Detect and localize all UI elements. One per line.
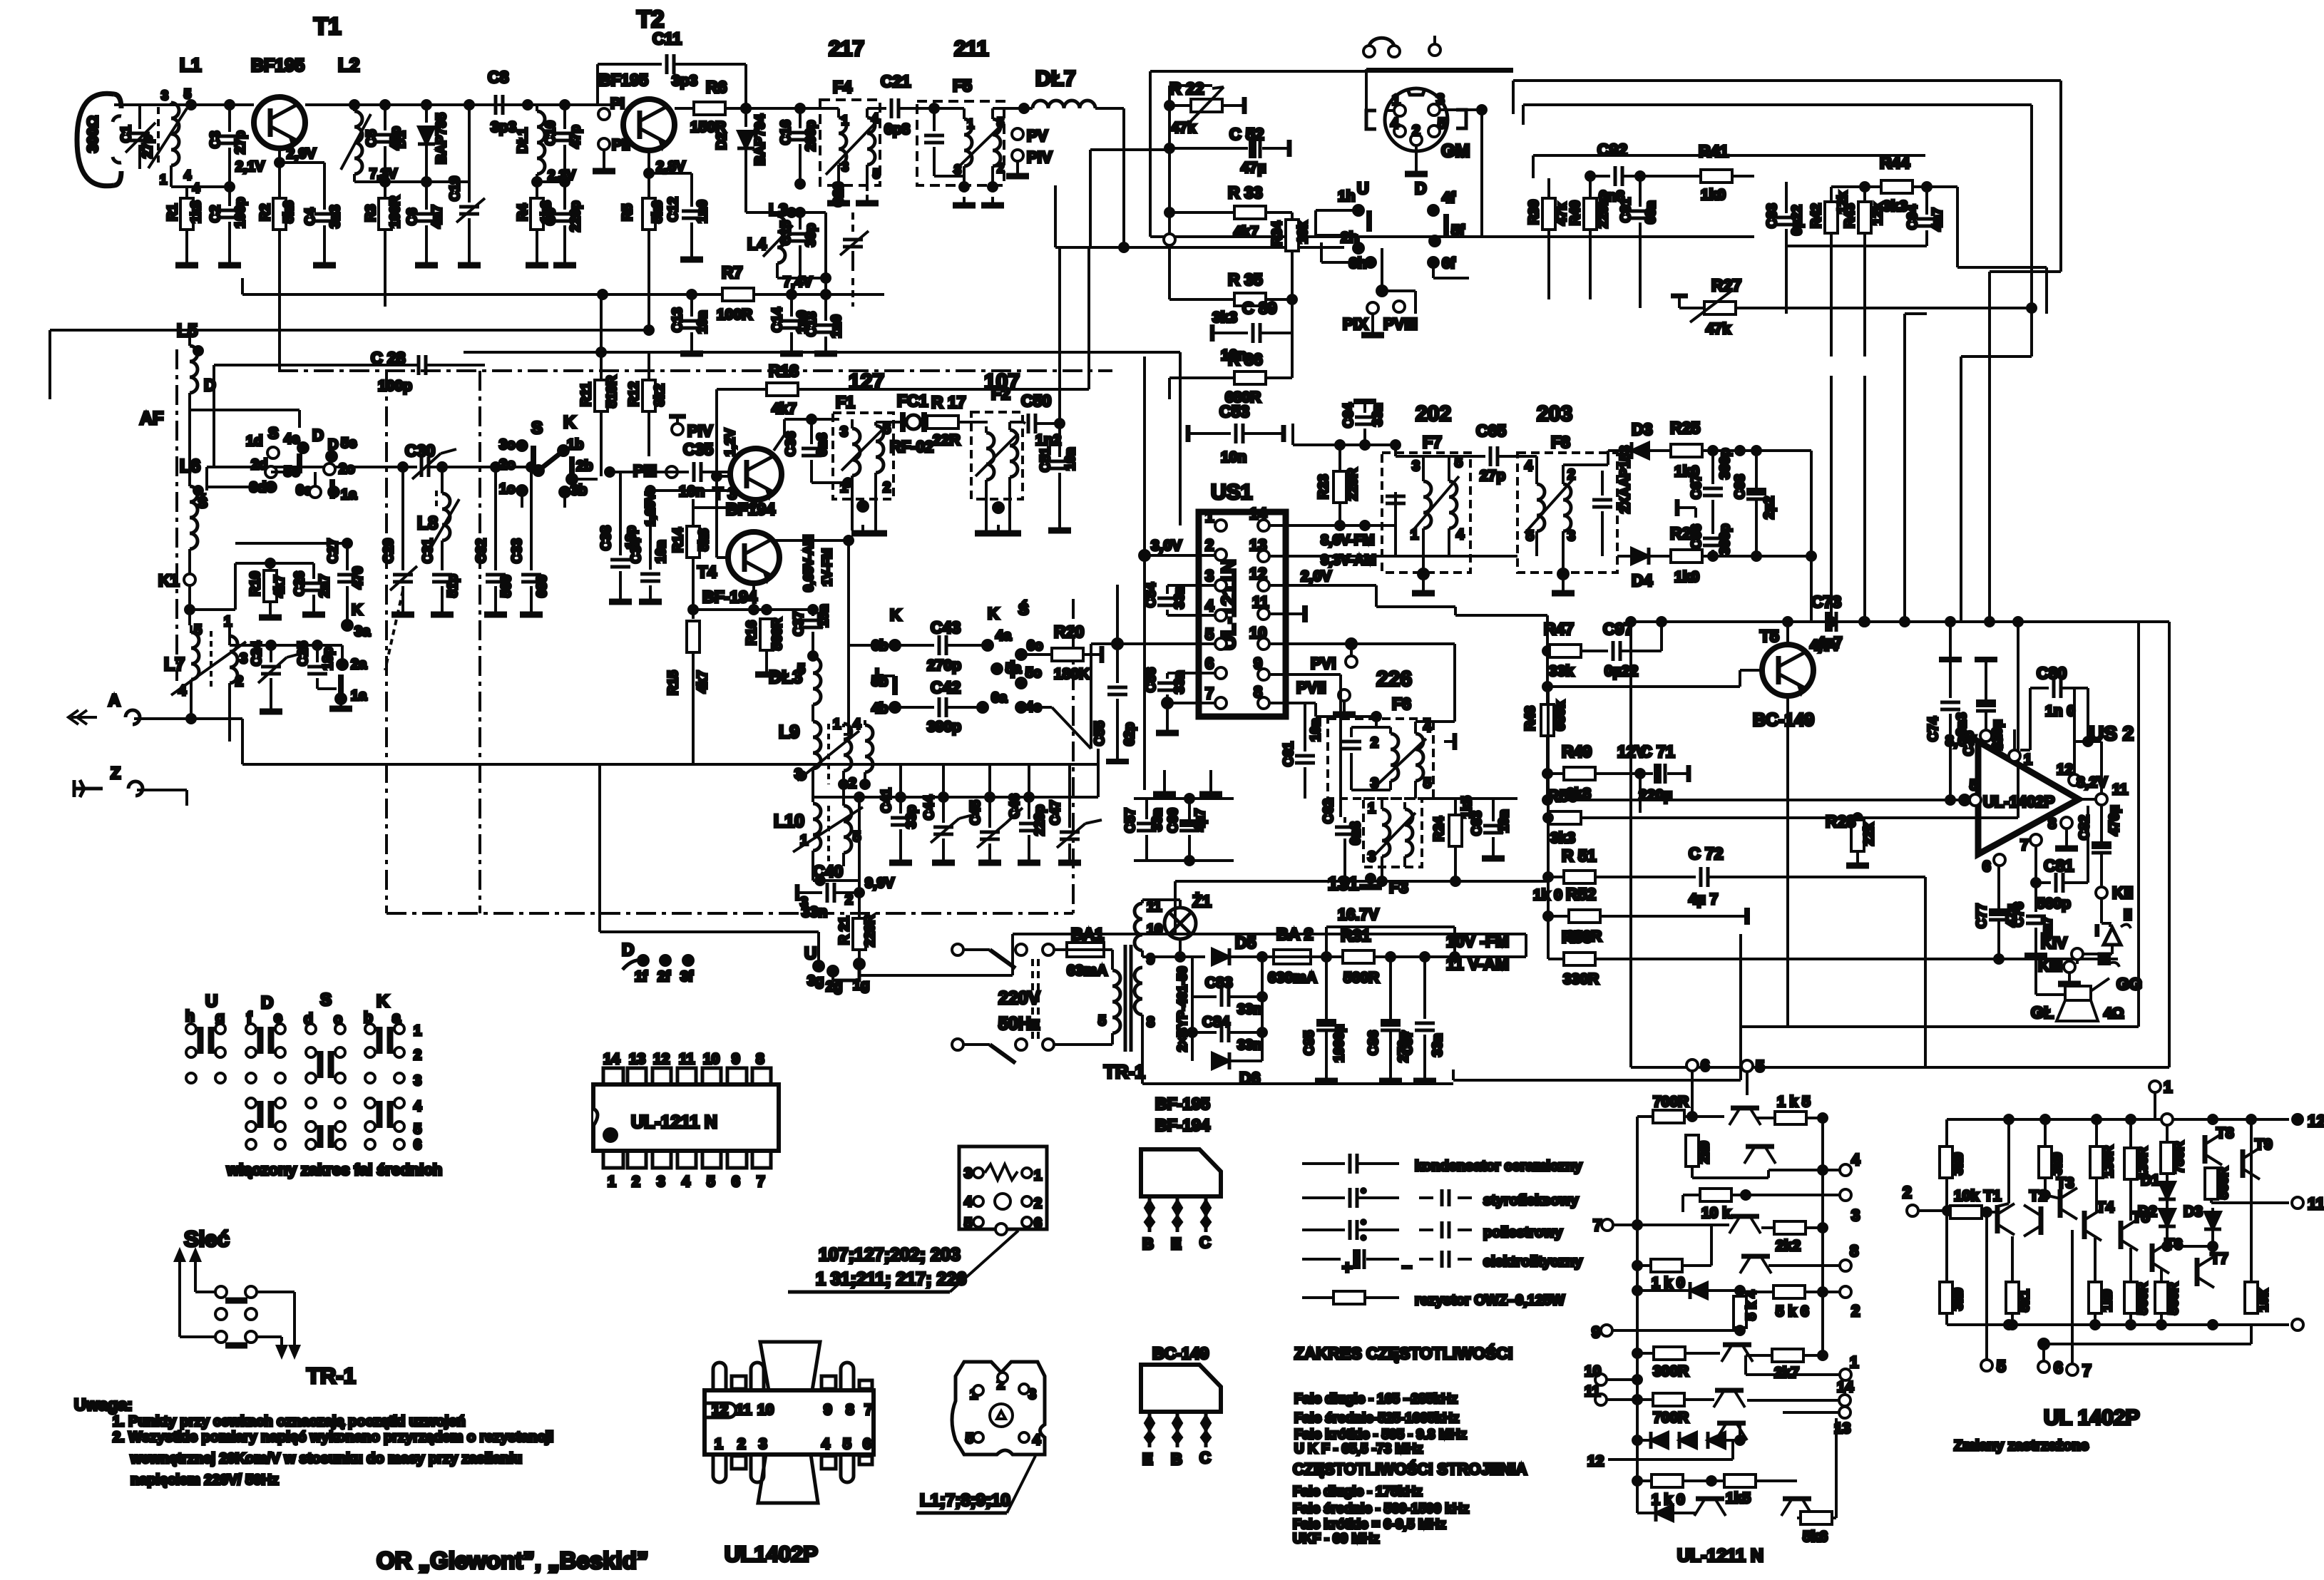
resistor R20 180K (1027, 622, 1102, 682)
svg-text:C32: C32 (474, 538, 489, 563)
svg-text:C34: C34 (629, 538, 644, 563)
capacitor C20 variable (831, 182, 869, 307)
svg-text:Z: Z (111, 764, 121, 782)
svg-text:C42: C42 (931, 678, 961, 697)
svg-text:F4: F4 (833, 78, 852, 96)
transistor T2 BF195 (599, 6, 675, 150)
svg-text:R3: R3 (364, 205, 379, 222)
svg-text:2: 2 (414, 1047, 421, 1063)
svg-text:11: 11 (2112, 781, 2129, 798)
svg-text:D1: D1 (394, 130, 409, 148)
svg-text:K: K (563, 413, 576, 432)
resistor 130R (2090, 1119, 2116, 1212)
svg-text:3,0V: 3,0V (1151, 538, 1182, 554)
svg-text:T2: T2 (637, 6, 665, 32)
svg-text:R40: R40 (1568, 200, 1583, 225)
svg-text:B: B (1142, 1235, 1154, 1253)
svg-text:560R: 560R (1343, 970, 1379, 986)
svg-text:Uwaga:: Uwaga: (74, 1395, 133, 1414)
wire T1 emitter (275, 146, 317, 369)
potentiometer R22 47k (1165, 79, 1244, 136)
capacitor C47 variable (1048, 764, 1102, 863)
svg-text:R48: R48 (1523, 706, 1538, 731)
svg-text:UL-1211 N: UL-1211 N (1677, 1546, 1764, 1566)
contacts 2a 1a (328, 645, 367, 709)
coil L6 (180, 410, 208, 574)
svg-text:3: 3 (841, 160, 849, 174)
svg-text:2,0V: 2,0V (1301, 568, 1331, 585)
svg-text:D: D (312, 426, 324, 444)
svg-text:100R: 100R (388, 195, 403, 228)
svg-text:560R: 560R (2216, 1166, 2231, 1199)
svg-text:7: 7 (1205, 684, 1214, 702)
svg-text:R 22: R 22 (1169, 79, 1204, 98)
svg-text:10: 10 (757, 1402, 774, 1418)
svg-text:1h: 1h (1338, 188, 1356, 205)
ground (313, 257, 336, 265)
terminal PV (1012, 127, 1048, 145)
svg-text:BF195: BF195 (599, 71, 648, 89)
wire 131 bus (1175, 799, 1548, 934)
svg-text:U: U (804, 944, 817, 963)
resistor R26 1k0 (1670, 524, 1811, 585)
resistor R51 1k0 (1533, 846, 1696, 903)
svg-text:6: 6 (1034, 1216, 1042, 1231)
svg-text:560R: 560R (770, 617, 785, 650)
rectifier bridge D5 D6 2xBYP-401-50 (1169, 933, 1274, 1061)
svg-text:180K: 180K (1054, 666, 1090, 682)
svg-text:PIX: PIX (1343, 315, 1368, 333)
svg-text:T4: T4 (697, 563, 717, 581)
resistor R24 1k5 (1432, 796, 1475, 881)
terminal 5 (1981, 1212, 2006, 1375)
filter FC1 RF-02 (876, 391, 933, 456)
svg-text:13: 13 (629, 1051, 645, 1067)
svg-text:Ż1: Ż1 (1192, 892, 1212, 910)
svg-text:3b: 3b (570, 483, 587, 498)
svg-text:C83: C83 (1205, 975, 1233, 991)
capacitor C26 2n7 (292, 563, 332, 615)
svg-text:R26: R26 (1670, 524, 1700, 543)
svg-text:C82: C82 (2077, 815, 2092, 840)
svg-text:RF-02: RF-02 (890, 438, 933, 456)
svg-text:9: 9 (824, 1402, 832, 1418)
svg-text:C65: C65 (1476, 421, 1506, 440)
capacitor C64 33n (1293, 401, 1396, 449)
svg-text:22R: 22R (933, 432, 961, 448)
wire osc out (859, 934, 1526, 975)
svg-text:3a: 3a (354, 624, 371, 640)
transistor T1 (1984, 1188, 2015, 1235)
fuse BA1 63mA (1067, 925, 1112, 979)
resistor R7 100R (717, 263, 813, 323)
svg-text:6: 6 (414, 1137, 421, 1153)
svg-text:R16: R16 (744, 620, 759, 645)
svg-text:BF-195: BF-195 (1155, 1094, 1210, 1113)
svg-text:1: 1 (1368, 801, 1376, 816)
capacitor C60 4u7 (1134, 794, 1234, 865)
svg-text:2: 2 (997, 161, 1004, 175)
svg-text:5: 5 (964, 1216, 972, 1231)
svg-text:10: 10 (1147, 922, 1162, 938)
svg-text:L4: L4 (747, 235, 767, 253)
svg-text:1: 1 (224, 614, 232, 630)
svg-text:39p: 39p (804, 223, 819, 247)
coil L8 (417, 463, 459, 570)
svg-text:F5: F5 (953, 76, 972, 95)
wire osc bus (813, 749, 1098, 802)
resistor R10 4k7 (190, 559, 314, 617)
svg-text:2k7: 2k7 (1774, 1365, 1799, 1381)
resistor 3k0 lower (1940, 1282, 1966, 1313)
svg-text:ZAKRES CZĘSTOTLIWOŚCI: ZAKRES CZĘSTOTLIWOŚCI (1294, 1343, 1512, 1363)
svg-text:C3: C3 (208, 131, 223, 148)
svg-text:OR „Giewont”, „Beskid”: OR „Giewont”, „Beskid” (377, 1547, 648, 1574)
resistor R2 5k6 (258, 198, 297, 230)
svg-text:203: 203 (1537, 402, 1572, 426)
diode D1 BAP795 (394, 105, 449, 182)
resistor R40 220k (1568, 176, 1611, 299)
capacitor C6 4n7 (405, 182, 445, 262)
filter F8 203 (1517, 402, 1617, 593)
svg-text:4: 4 (1391, 116, 1399, 132)
svg-text:47µ: 47µ (1241, 160, 1266, 176)
package UL1402P (705, 1342, 874, 1566)
svg-text:6: 6 (2054, 1358, 2063, 1377)
svg-text:1f: 1f (635, 969, 647, 985)
svg-text:AF: AF (140, 409, 163, 429)
svg-text:1d: 1d (246, 434, 262, 449)
svg-text:R14: R14 (671, 528, 686, 553)
svg-text:BC-149: BC-149 (1152, 1344, 1209, 1363)
transistor T2 (1997, 1119, 2047, 1236)
svg-text:6p8: 6p8 (884, 121, 911, 138)
resistor 1k5 (1711, 1474, 1797, 1507)
svg-text:700R: 700R (1653, 1410, 1689, 1426)
transistor (1729, 1108, 1761, 1125)
svg-text:T6: T6 (2165, 1236, 2183, 1253)
svg-text:1. Punkty przy cewkach ozna: 1. Punkty przy cewkach oznaczają początk… (113, 1414, 466, 1430)
capacitor C85 1000u (1302, 957, 1347, 1081)
svg-text:PII: PII (612, 137, 630, 153)
svg-text:3k0: 3k0 (1951, 1152, 1966, 1175)
wire T4 emitter bus (689, 583, 817, 614)
svg-text:C63: C63 (1470, 811, 1485, 836)
resistor 1k5 (1757, 1094, 1827, 1124)
svg-text:R52: R52 (1566, 885, 1596, 903)
svg-text:33n: 33n (1430, 1033, 1445, 1057)
svg-text:GG: GG (2116, 975, 2142, 993)
transistor T9 (2243, 1137, 2273, 1179)
svg-text:4b: 4b (871, 701, 888, 717)
capacitor C65 27p (1469, 421, 1530, 484)
svg-text:C16: C16 (779, 120, 794, 145)
svg-text:4: 4 (682, 1174, 690, 1190)
svg-text:3k3: 3k3 (1212, 309, 1237, 326)
wire pin14 bus (1270, 521, 1396, 568)
svg-text:1 k 0: 1 k 0 (1652, 1275, 1685, 1291)
switch 1h U / D 4f (1316, 179, 1469, 314)
svg-text:560: 560 (499, 575, 514, 597)
svg-text:1: 1 (967, 117, 974, 131)
resistor R27 47k (1671, 276, 2036, 337)
coil DL3 (769, 652, 821, 722)
svg-text:3: 3 (840, 424, 848, 440)
svg-text:8,6V: 8,6V (1945, 733, 1976, 749)
svg-text:33n: 33n (1237, 1002, 1261, 1017)
svg-text:1: 1 (1205, 508, 1214, 525)
legend poliestrowy (1302, 1220, 1563, 1241)
svg-text:0µ22: 0µ22 (1604, 663, 1638, 679)
svg-text:8k2: 8k2 (652, 384, 667, 406)
svg-text:47k: 47k (1171, 120, 1196, 136)
capacitor C13 10n (670, 294, 710, 354)
svg-text:TR-1: TR-1 (307, 1363, 356, 1388)
svg-text:2b: 2b (576, 458, 593, 474)
speaker GL 4ohm (2031, 954, 2124, 1022)
svg-text:2: 2 (1903, 1183, 1912, 1201)
svg-text:3: 3 (1412, 458, 1420, 474)
svg-text:C2: C2 (208, 205, 223, 222)
svg-text:C86: C86 (1366, 1030, 1381, 1055)
terminal Z (74, 764, 187, 806)
capacitor C75 220u (1962, 660, 2005, 756)
capacitor C74 3n3 (1926, 622, 1970, 804)
svg-text:DŁ7: DŁ7 (1035, 67, 1076, 91)
svg-text:14: 14 (603, 1051, 620, 1067)
connector pins top (1363, 36, 1440, 57)
svg-text:R 33: R 33 (1228, 183, 1263, 202)
svg-text:C: C (1199, 1449, 1211, 1467)
svg-text:D: D (1415, 179, 1427, 197)
svg-text:15n: 15n (817, 604, 831, 627)
resistor 5k4 (1734, 1290, 1759, 1335)
svg-text:3p3: 3p3 (491, 119, 516, 135)
resistor R12 8k2 (627, 355, 667, 456)
svg-text:10k: 10k (1296, 221, 1311, 244)
svg-text:5k1: 5k1 (2017, 1289, 2032, 1312)
svg-text:KIV: KIV (2041, 934, 2067, 952)
capacitor C30 variable (405, 441, 538, 479)
svg-text:11: 11 (1252, 593, 1269, 611)
capacitor C68 2u2 (1733, 446, 1777, 560)
svg-text:10: 10 (703, 1051, 720, 1067)
svg-text:UKF - 69 MHz: UKF - 69 MHz (1293, 1532, 1379, 1546)
svg-text:5e: 5e (341, 436, 357, 451)
svg-text:300Ω: 300Ω (85, 116, 101, 153)
svg-text:C60: C60 (1166, 808, 1181, 833)
svg-text:DŁ1: DŁ1 (516, 128, 531, 153)
svg-text:470: 470 (351, 566, 366, 589)
transistor T4 BF-194 (697, 476, 834, 606)
svg-text:7: 7 (2020, 837, 2029, 853)
capacitor C3 27p (208, 101, 265, 187)
svg-text:C25: C25 (296, 641, 311, 666)
svg-text:2×BYP-401-50: 2×BYP-401-50 (1175, 966, 1189, 1052)
svg-text:T5: T5 (1760, 627, 1779, 645)
resistor R13 4k7 (717, 247, 1089, 476)
svg-text:PIV: PIV (687, 422, 713, 440)
ground (218, 257, 241, 265)
wire audio box (1741, 622, 2139, 1027)
resistor 1k0 (1633, 1225, 1711, 1291)
diode D3 (1608, 420, 1671, 513)
svg-text:33n: 33n (1237, 1037, 1261, 1053)
wire collector bus (305, 101, 623, 109)
svg-text:18p: 18p (321, 647, 336, 670)
svg-text:R49: R49 (1562, 742, 1592, 761)
terminal 1 (2149, 1078, 2173, 1169)
resistor 300R (1633, 1347, 1720, 1380)
svg-text:5: 5 (873, 167, 880, 181)
svg-text:C57: C57 (1123, 808, 1138, 833)
svg-text:PI: PI (610, 96, 625, 112)
svg-text:62p: 62p (1122, 722, 1137, 746)
svg-text:226: 226 (1376, 667, 1412, 691)
svg-text:6: 6 (732, 1174, 740, 1190)
switch contacts D S group (207, 424, 357, 503)
svg-text:BF-194: BF-194 (1155, 1116, 1210, 1134)
svg-text:2µ2: 2µ2 (1762, 496, 1777, 519)
svg-text:6a: 6a (991, 690, 1008, 706)
resistor R25 1k0 (1670, 419, 1811, 480)
svg-text:C43: C43 (931, 618, 961, 637)
svg-text:1k0: 1k0 (2100, 1289, 2115, 1312)
capacitor C27 470 (235, 538, 371, 640)
svg-text:12: 12 (712, 1402, 728, 1418)
label 127 107 (849, 370, 1020, 394)
svg-text:D1: D1 (2141, 1172, 2160, 1189)
svg-text:1k5: 1k5 (1726, 1490, 1751, 1507)
svg-text:220p: 220p (1033, 805, 1048, 836)
svg-text:1: 1 (608, 1174, 616, 1190)
svg-text:K: K (377, 992, 389, 1011)
svg-text:PVII: PVII (1296, 679, 1326, 697)
svg-text:R24: R24 (1432, 816, 1447, 841)
svg-text:7: 7 (864, 1402, 873, 1418)
svg-text:US1: US1 (1211, 481, 1252, 504)
svg-text:2: 2 (1371, 735, 1378, 751)
coil L7 (164, 614, 247, 742)
svg-text:4: 4 (1851, 1151, 1860, 1169)
headphone jack I II (2077, 907, 2132, 954)
capacitor C55 62p (1092, 687, 1137, 761)
transistor pair bottom (1694, 1499, 1813, 1516)
svg-text:390p: 390p (1718, 524, 1733, 555)
svg-text:7: 7 (2082, 1361, 2092, 1380)
svg-text:F6: F6 (1392, 694, 1411, 713)
heading ZAKRES (1293, 1343, 1527, 1546)
svg-text:T1: T1 (314, 13, 342, 39)
capacitor C83 33n (1192, 975, 1266, 1017)
coil DL7 (993, 67, 1124, 113)
contact block K K S (871, 600, 1091, 749)
svg-text:S: S (531, 419, 543, 438)
svg-text:390p: 390p (1718, 448, 1733, 479)
svg-text:styrofleksowy: styrofleksowy (1483, 1193, 1579, 1209)
svg-text:I: I (2095, 923, 2099, 939)
svg-text:5c: 5c (1025, 665, 1041, 681)
ground (526, 257, 548, 265)
filter F4 217 (820, 37, 880, 191)
svg-text:5: 5 (843, 1436, 851, 1452)
svg-text:UL-1402P: UL-1402P (1983, 793, 2054, 811)
lamp Z1 (1164, 892, 1212, 961)
svg-text:R15: R15 (666, 670, 681, 695)
svg-text:10n: 10n (1221, 449, 1247, 466)
svg-text:BF-194: BF-194 (702, 588, 757, 606)
svg-text:2: 2 (883, 480, 891, 496)
switch matrix U D S K (185, 990, 442, 1179)
resistor 560R (2124, 1248, 2151, 1325)
svg-text:R20: R20 (1054, 622, 1084, 641)
svg-text:5f: 5f (1451, 222, 1465, 239)
svg-text:C61: C61 (1281, 742, 1296, 766)
package BF-19x (1141, 1149, 1221, 1253)
svg-text:C27: C27 (326, 538, 341, 563)
terminal 8 (1768, 1242, 1858, 1271)
svg-text:R 36: R 36 (1228, 350, 1263, 369)
transistor T6 (2152, 1236, 2183, 1273)
svg-text:R28: R28 (1826, 812, 1855, 831)
svg-text:3c: 3c (499, 437, 515, 453)
svg-text:2: 2 (845, 892, 853, 908)
resistor 2k2 (1761, 1221, 1827, 1254)
legend rezystor (1302, 1291, 1565, 1308)
IC US1 UL-1211N (1199, 481, 1286, 717)
svg-text:F7: F7 (1423, 433, 1442, 451)
svg-text:2k2: 2k2 (1776, 1238, 1801, 1254)
capacitor C76 4n7 (2012, 846, 2055, 955)
svg-text:3: 3 (1851, 1206, 1860, 1224)
resistor 3k0 mid (2039, 1119, 2065, 1195)
svg-text:27p: 27p (233, 130, 248, 154)
svg-text:3g: 3g (807, 973, 824, 989)
svg-text:C26: C26 (292, 571, 307, 596)
svg-text:5: 5 (1423, 776, 1431, 791)
svg-text:2k0: 2k0 (1697, 1141, 1712, 1164)
svg-text:8: 8 (1254, 683, 1262, 701)
capacitor C11 3p3 (598, 29, 746, 108)
svg-text:3: 3 (1371, 776, 1378, 791)
svg-text:C84: C84 (1202, 1014, 1230, 1030)
coil DL1 (516, 101, 575, 183)
svg-text:R42: R42 (1809, 203, 1824, 228)
svg-text:C33: C33 (510, 538, 525, 563)
svg-text:C73: C73 (1811, 592, 1841, 611)
capacitor C28 100p (214, 349, 485, 467)
svg-text:300R: 300R (1653, 1363, 1689, 1380)
svg-text:4a: 4a (995, 628, 1012, 644)
package BC-149 (1141, 1365, 1221, 1468)
capacitor C14 1n0 (770, 294, 810, 354)
coil L9 (779, 717, 873, 802)
svg-text:1n0: 1n0 (829, 314, 844, 338)
svg-text:12: 12 (1249, 565, 1266, 583)
capacitor C8 3p3 (488, 68, 528, 135)
svg-text:GŁ: GŁ (2031, 1003, 2054, 1022)
capacitor C86 270u (1366, 957, 1411, 1081)
svg-text:3: 3 (1368, 849, 1376, 865)
svg-text:BC-149: BC-149 (1753, 710, 1814, 730)
svg-text:5: 5 (1205, 625, 1214, 643)
svg-text:9: 9 (732, 1051, 740, 1067)
svg-text:D4: D4 (1632, 571, 1653, 590)
terminal 5 (1741, 1057, 1764, 1095)
capacitor C44 variable (922, 764, 976, 863)
svg-text:1: 1 (1392, 92, 1401, 108)
trimmer filter box (959, 1146, 1047, 1235)
